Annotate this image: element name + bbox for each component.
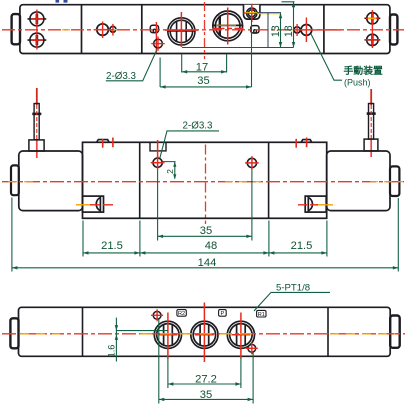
top view vertical centerline bbox=[204, 2, 206, 59]
svg-text:35: 35 bbox=[200, 389, 212, 401]
orange tint line in large circle bbox=[216, 24, 236, 26]
2-o3.3 label front bbox=[183, 120, 214, 131]
label R2 bbox=[177, 310, 186, 318]
red crosshair large circle bbox=[213, 8, 244, 45]
front view vertical centerline bbox=[205, 145, 207, 225]
dim texts top view bbox=[106, 25, 295, 87]
21.5 / 48 / 21.5 dimension line bbox=[83, 252, 327, 254]
left terminal pin red wire bbox=[36, 88, 38, 105]
35 dimension line (top) bbox=[160, 86, 251, 88]
arrowheads front dims bbox=[12, 235, 398, 270]
central plate bbox=[83, 142, 327, 218]
17 dimension line bbox=[182, 71, 227, 73]
red/orange line through left fitting bbox=[76, 204, 92, 206]
top view right end cap bbox=[390, 15, 397, 45]
section divider line 2 bbox=[141, 5, 143, 54]
left pin base box bbox=[29, 140, 44, 151]
hanging box below plate top bbox=[150, 142, 166, 151]
17 dim extension right bbox=[226, 55, 228, 73]
top view left mounting hole upper bbox=[28, 12, 47, 26]
breather square left bbox=[150, 25, 158, 32]
17 dim extension left bbox=[181, 55, 183, 73]
port circle R2 bbox=[154, 321, 181, 348]
144 dimension line bbox=[12, 267, 398, 269]
ext plate right edge down bbox=[326, 221, 328, 257]
35 dimension line (front) bbox=[158, 235, 252, 237]
push button circle in notch bbox=[247, 8, 257, 18]
ext valve body left down bbox=[139, 221, 141, 257]
top view right mounting hole upper bbox=[365, 13, 381, 24]
svg-text:21.5: 21.5 bbox=[101, 240, 123, 252]
bottom view body outline bbox=[19, 307, 391, 356]
right terminal pin red wire bbox=[370, 89, 372, 105]
18 arrows bbox=[292, 2, 295, 8]
top view right mounting hole lower bbox=[365, 34, 381, 45]
svg-text:18: 18 bbox=[283, 25, 295, 37]
27.2 dimension line bbox=[168, 383, 241, 385]
right pin base box bbox=[364, 139, 378, 151]
svg-text:48: 48 bbox=[205, 240, 217, 252]
ext lines from front holes down to 35 dim bbox=[157, 170, 159, 241]
35 dim extension left bbox=[159, 58, 161, 88]
right end cap front bbox=[390, 166, 399, 196]
orange overlay dashes on centerline bbox=[62, 29, 74, 31]
top view body outline bbox=[20, 5, 390, 54]
svg-text:35: 35 bbox=[200, 225, 212, 237]
ext 27.2 right bbox=[240, 358, 242, 388]
svg-text:17: 17 bbox=[196, 62, 208, 74]
right solenoid body bbox=[327, 151, 390, 211]
ext from top-left hole down bbox=[158, 320, 160, 404]
cropped blue title text at top bbox=[56, 0, 68, 3]
yellow centerline through keyhole bbox=[93, 29, 119, 31]
leader push text bbox=[311, 34, 342, 80]
valve body right edge bbox=[268, 142, 270, 218]
svg-text:R1: R1 bbox=[258, 312, 265, 318]
small circle of keyhole bbox=[110, 26, 116, 32]
bottom view divider left bbox=[82, 307, 84, 356]
section divider line 3 bbox=[323, 5, 325, 54]
red vertical through breather left and hole below bbox=[155, 22, 157, 53]
ext from bottom-right hole down bbox=[252, 353, 254, 404]
1.6 dimension bbox=[116, 318, 167, 362]
dim texts front view bbox=[101, 225, 312, 269]
svg-text:P: P bbox=[221, 311, 225, 317]
bottom view horizontal centerline bbox=[2, 333, 405, 335]
label P bbox=[219, 310, 227, 318]
section divider line 1 bbox=[81, 5, 83, 54]
left exhaust fitting bbox=[83, 196, 104, 212]
red crosshair of keyhole bbox=[95, 22, 113, 39]
arrowheads top dims bbox=[160, 2, 295, 89]
17 arrows bbox=[182, 70, 188, 73]
left pin body bbox=[32, 104, 41, 140]
vertical from push circle down to 35 dim bbox=[251, 20, 253, 88]
right keyhole big circle bbox=[301, 25, 312, 36]
top view left mounting hole lower bbox=[28, 33, 47, 47]
bottom view divider right bbox=[327, 307, 329, 356]
green tick near top for 18 bbox=[282, 1, 295, 3]
screw bump right bbox=[301, 140, 312, 143]
breather square right bbox=[251, 26, 259, 33]
red crosshair of push notch circle bbox=[244, 4, 262, 22]
top view manual-override notch in top edge bbox=[244, 5, 260, 20]
35 dimension line (bottom) bbox=[159, 398, 253, 400]
red crosshair medium circle bbox=[165, 12, 198, 47]
dim line 13 vertical bbox=[267, 13, 269, 48]
left end cap front bbox=[11, 165, 19, 195]
svg-text:手動装置: 手動装置 bbox=[344, 64, 384, 77]
svg-text:21.5: 21.5 bbox=[291, 240, 313, 252]
144 ext right bbox=[397, 198, 399, 272]
svg-text:(Push): (Push) bbox=[344, 77, 371, 87]
front view horizontal centerline bbox=[2, 181, 404, 183]
bottom view right end cap bbox=[390, 316, 400, 348]
label R1 bbox=[257, 310, 266, 318]
svg-text:R2: R2 bbox=[178, 311, 185, 317]
2-d3.3 hole (top view) bbox=[154, 39, 163, 48]
red centerlines of left holes bbox=[31, 10, 43, 50]
svg-text:2-Ø3.3: 2-Ø3.3 bbox=[106, 71, 137, 82]
red centerlines right holes bbox=[365, 10, 380, 48]
front mounting hole right bbox=[247, 158, 256, 167]
ext valve body right down bbox=[268, 221, 270, 257]
svg-text:2-Ø3.3: 2-Ø3.3 bbox=[183, 120, 214, 131]
port circle P bbox=[191, 321, 218, 348]
ext plate left edge down bbox=[82, 221, 84, 257]
svg-text:27.2: 27.2 bbox=[195, 373, 217, 385]
bottom small mounting hole top-left bbox=[153, 311, 161, 319]
screw red ticks left bbox=[102, 139, 104, 148]
right manual override keyhole: small circle bbox=[294, 25, 312, 36]
left manual override keyhole: big circle bbox=[97, 24, 116, 36]
green datum line under circles y=47.5 bbox=[182, 47, 294, 49]
svg-text:1.6: 1.6 bbox=[107, 345, 117, 358]
small 2 dimension bbox=[163, 162, 176, 179]
bottom view left end cap bbox=[10, 318, 18, 348]
manual device text bbox=[344, 64, 384, 88]
port circle R1 bbox=[227, 321, 254, 348]
top view left end cap bbox=[12, 14, 20, 44]
13 arrows bbox=[279, 13, 282, 19]
svg-text:2: 2 bbox=[165, 169, 175, 174]
ext 27.2 left bbox=[167, 358, 169, 388]
top view horizontal centerline bbox=[2, 29, 404, 31]
dim line 18 vertical bbox=[293, 2, 295, 48]
svg-text:5-PT1/8: 5-PT1/8 bbox=[276, 282, 310, 293]
leader 2-o3.3 top view bbox=[106, 51, 157, 81]
bottom small mounting hole bottom-right bbox=[248, 344, 256, 352]
front mounting hole left bbox=[153, 158, 162, 167]
medium pilot circle (top view) bbox=[168, 18, 195, 45]
svg-text:35: 35 bbox=[197, 75, 209, 87]
valve body left edge bbox=[139, 142, 141, 218]
screw red ticks right bbox=[295, 139, 297, 148]
35 arrows (top) bbox=[160, 85, 166, 88]
svg-text:13: 13 bbox=[270, 25, 282, 37]
left solenoid body bbox=[19, 151, 83, 211]
svg-text:144: 144 bbox=[198, 257, 217, 269]
144 ext left bbox=[11, 198, 13, 272]
right exhaust fitting bbox=[305, 196, 326, 212]
extension vertical x=280.5 bbox=[280, 13, 282, 48]
right pin body bbox=[367, 104, 376, 140]
screw bump left bbox=[97, 140, 110, 143]
large main circle (top view) bbox=[213, 11, 243, 41]
red centerlines of port circles bbox=[159, 303, 251, 363]
green line from push circle level bbox=[257, 12, 281, 14]
